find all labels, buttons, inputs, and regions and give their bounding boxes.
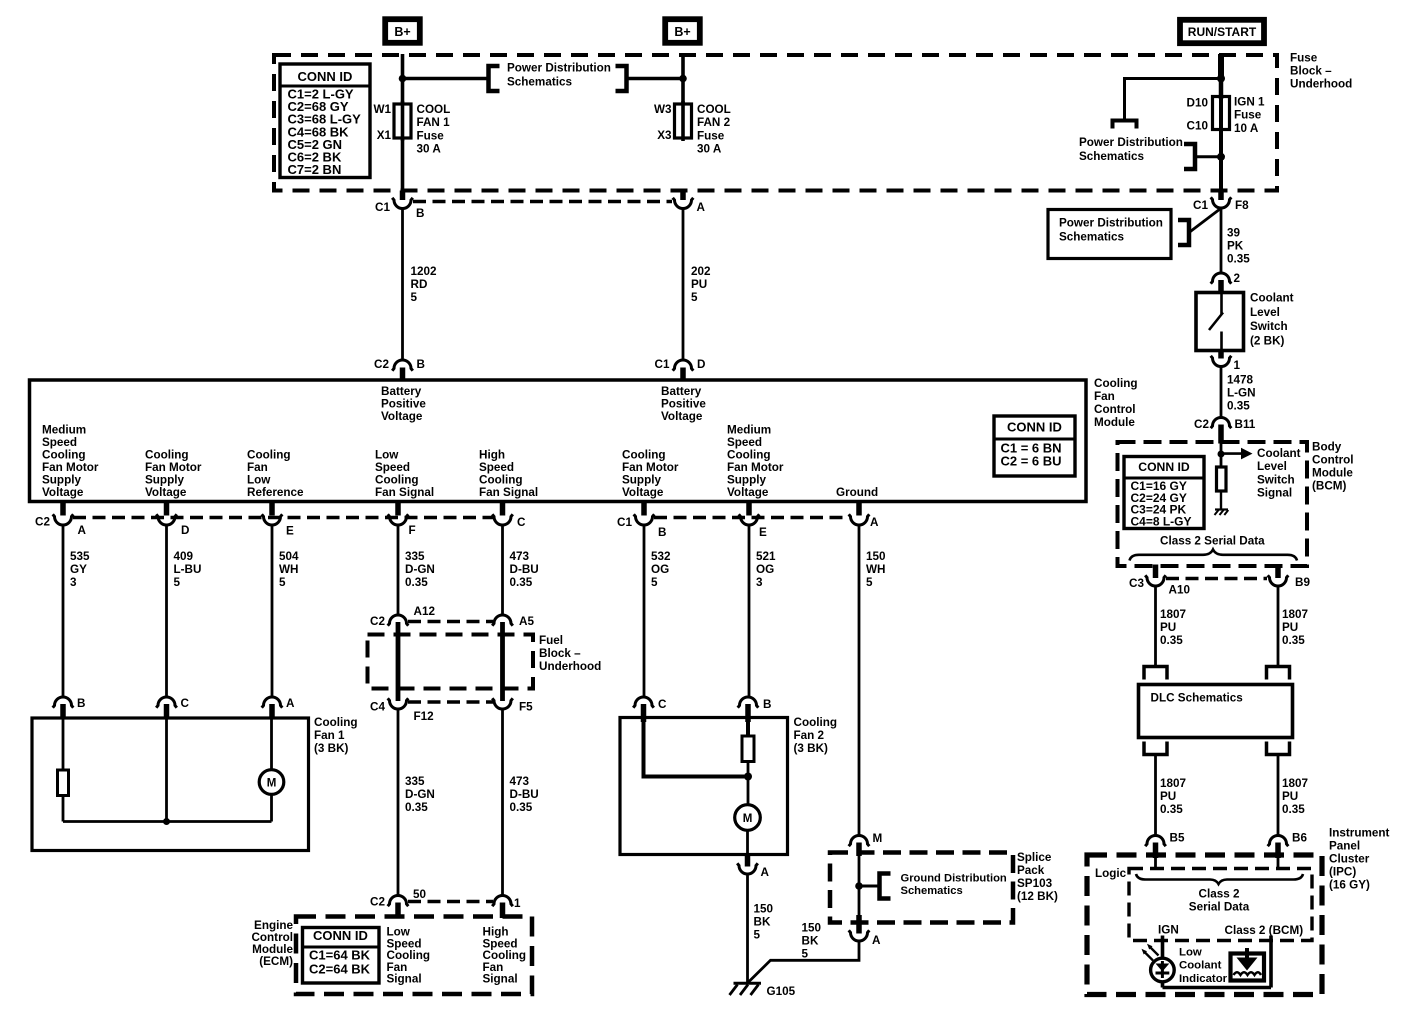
junction node power dist 2 [1217,153,1225,161]
svg-text:FAN 2: FAN 2 [697,116,731,129]
svg-text:B: B [416,207,424,220]
connector 1 coolant switch [1218,349,1224,359]
svg-text:535: 535 [70,550,90,563]
svg-text:(3 BK): (3 BK) [314,742,349,755]
svg-text:Positive: Positive [661,398,706,411]
svg-text:Supply: Supply [42,474,81,487]
svg-text:C2: C2 [370,896,385,909]
module pin A x63 [60,503,66,516]
connector C1-D module top [673,360,694,371]
svg-text:A5: A5 [519,615,534,628]
dashed connector line module right [654,516,849,520]
svg-text:Control: Control [1094,403,1136,416]
wire A10 to DLC [1154,586,1157,667]
coolant level switch box [1196,293,1244,351]
svg-text:X1: X1 [377,129,392,142]
svg-text:DLC Schematics: DLC Schematics [1151,692,1244,705]
connector fan2 A [745,854,751,867]
wire F8 to coolant switch [1220,208,1223,274]
wire junction1 to left bracket [403,77,488,81]
svg-text:B: B [77,697,85,710]
svg-text:5: 5 [754,929,761,942]
svg-text:409: 409 [174,550,194,563]
svg-text:Cooling: Cooling [794,716,838,729]
svg-text:B: B [658,526,666,539]
svg-text:Battery: Battery [381,385,422,398]
CONN ID table module [994,416,1075,476]
svg-text:RUN/START: RUN/START [1188,25,1257,39]
connector C1-B fuse block [392,198,413,209]
wire pin F to fuel block [397,525,400,617]
svg-text:Level: Level [1257,460,1287,473]
svg-text:3: 3 [70,576,77,589]
CONN ID table ECM [303,928,380,984]
svg-text:C2: C2 [374,358,389,371]
dashed connector line serial [1166,577,1267,581]
connector C2-B11 [1211,418,1232,429]
arrow coolant level switch signal [1221,452,1241,455]
svg-text:B6: B6 [1292,832,1307,845]
svg-text:Low: Low [375,449,399,462]
fan2 wire B to resistor [746,720,750,737]
fork to power distribution [1113,121,1137,129]
svg-text:Schematics: Schematics [507,76,572,89]
svg-text:M: M [873,832,883,845]
svg-text:Speed: Speed [727,436,762,449]
module pin C x502.5 [500,503,506,516]
svg-text:Cooling: Cooling [375,474,419,487]
junction node wire1/power-dist [399,75,407,83]
svg-text:WH: WH [279,563,298,576]
wire splice internal top [858,855,861,916]
cooling fan control module box [30,380,1087,502]
svg-text:WH: WH [866,563,885,576]
indicator icon wave [1234,972,1262,975]
fan2 wire C branch [644,720,749,777]
connector C2-B module top [392,360,413,371]
svg-text:Cooling: Cooling [479,474,523,487]
connector M splice [849,836,870,847]
svg-text:Block –: Block – [539,647,581,660]
svg-text:B: B [763,698,771,711]
connector B5 [1145,836,1166,847]
svg-text:Coolant: Coolant [1257,447,1301,460]
svg-text:B11: B11 [1235,418,1256,431]
svg-text:Voltage: Voltage [661,410,703,423]
bracket to Power Distribution Schematics left [489,66,500,91]
svg-text:Coolant: Coolant [1179,960,1222,972]
svg-text:Ground: Ground [836,486,878,499]
connector A fuse block wire2 [680,191,686,201]
fuse COOL FAN 1 [394,104,411,138]
svg-text:L-GN: L-GN [1227,387,1256,400]
svg-text:F12: F12 [414,710,435,723]
wire B9 to DLC [1277,586,1280,667]
svg-text:5: 5 [651,576,658,589]
resistor fan1 [58,770,69,796]
svg-text:B+: B+ [394,25,410,39]
svg-text:Low: Low [247,474,271,487]
svg-text:Schematics: Schematics [1059,231,1124,244]
fuel block dashed box [368,635,534,689]
svg-text:(IPC): (IPC) [1329,866,1356,879]
brace class 2 IPC [1136,874,1303,884]
svg-text:Fan: Fan [1094,390,1115,403]
svg-text:L-BU: L-BU [174,563,202,576]
wire switch to BCM [1220,367,1223,419]
fan2 wire motor to pin A [746,830,749,855]
svg-text:Control: Control [1312,454,1354,467]
svg-text:B+: B+ [674,25,690,39]
svg-text:B5: B5 [1170,832,1185,845]
connector C2-A12 [388,615,409,626]
svg-text:5: 5 [279,576,286,589]
svg-text:BK: BK [754,916,771,929]
fan1 wire C down [165,718,168,822]
svg-text:D10: D10 [1187,97,1209,110]
splice pack dashed box [830,853,1013,923]
svg-text:0.35: 0.35 [1160,634,1183,647]
svg-text:Schematics: Schematics [901,885,963,897]
svg-text:532: 532 [651,550,671,563]
svg-text:BK: BK [802,935,819,948]
svg-text:1478: 1478 [1227,374,1254,387]
svg-text:C2: C2 [370,615,385,628]
svg-text:D: D [697,358,705,371]
svg-text:0.35: 0.35 [405,801,428,814]
svg-text:C1: C1 [375,201,390,214]
svg-text:Reference: Reference [247,486,304,499]
svg-text:(2 BK): (2 BK) [1250,334,1285,347]
ignition feed RUN/START terminal [1180,20,1264,43]
svg-text:PU: PU [1282,621,1298,634]
svg-text:COOL: COOL [417,103,451,116]
svg-text:Indicator: Indicator [1179,973,1228,985]
svg-text:Fan Motor: Fan Motor [145,461,202,474]
svg-text:RD: RD [411,278,428,291]
junction node splice [855,882,863,890]
wire connector to module wire2 [682,209,685,362]
svg-text:Class 2 Serial Data: Class 2 Serial Data [1160,535,1265,548]
thick wire through fuel block left [396,622,401,701]
svg-text:B9: B9 [1295,576,1310,589]
connector A5 [492,615,513,626]
svg-text:150: 150 [802,922,822,935]
junction node wire2/power-dist [679,75,687,83]
svg-text:C2=64 BK: C2=64 BK [309,962,371,977]
box Power Distribution Schematics [1048,210,1171,259]
svg-text:Underhood: Underhood [1290,78,1352,91]
svg-text:504: 504 [279,550,299,563]
svg-text:Medium: Medium [727,424,771,437]
svg-text:39: 39 [1227,227,1241,240]
svg-text:0.35: 0.35 [1282,634,1305,647]
svg-text:0.35: 0.35 [1227,253,1250,266]
dashed connector line fuel top [408,620,493,624]
connector F5 [492,698,513,709]
svg-text:C2: C2 [35,516,50,529]
svg-text:CONN ID: CONN ID [298,69,353,84]
svg-text:Voltage: Voltage [727,486,769,499]
wire splice to bracket [859,885,878,888]
svg-text:C2 = 6 BU: C2 = 6 BU [1001,454,1062,469]
svg-text:A: A [78,524,87,537]
diagonal wire bracket to C1-F8 [1189,209,1220,233]
ground G105 symbol [734,982,762,985]
svg-text:C: C [181,697,190,710]
svg-text:Fuse: Fuse [697,129,725,142]
wire LED to bus [1161,981,1165,988]
bracket ground distribution [880,874,891,899]
fan1 wire B to resistor [62,718,65,771]
svg-text:Underhood: Underhood [539,660,601,673]
svg-text:OG: OG [651,563,669,576]
resistor fan2 [742,736,754,762]
wire resistor to ground BCM [1220,491,1222,509]
svg-text:F5: F5 [519,701,533,714]
battery feed B+ terminal 2 [665,19,700,43]
svg-text:5: 5 [411,291,418,304]
motor M fan1 [259,770,284,795]
wire fan2 A to ground [746,874,749,984]
svg-text:335: 335 [405,775,425,788]
svg-text:Signal: Signal [483,973,518,986]
module pin E x749 [746,503,752,516]
fan1 wire resistor to bus [62,796,65,822]
svg-text:Logic: Logic [1095,867,1127,880]
LED arrows [1145,952,1154,961]
svg-text:Instrument: Instrument [1329,827,1389,840]
svg-text:Supply: Supply [622,474,661,487]
svg-text:D: D [181,524,189,537]
connector 2 coolant switch [1211,273,1232,284]
svg-text:150: 150 [866,550,886,563]
svg-text:521: 521 [756,550,776,563]
svg-text:3: 3 [756,576,763,589]
svg-text:Fan 2: Fan 2 [794,729,825,742]
svg-text:Fuel: Fuel [539,634,563,647]
svg-text:PU: PU [691,278,707,291]
logic bottom bus [1163,986,1272,990]
svg-text:Serial Data: Serial Data [1189,901,1250,914]
svg-text:C: C [658,698,667,711]
wire B5 into logic [1154,857,1157,870]
svg-text:C2: C2 [1194,418,1209,431]
svg-text:C1: C1 [617,516,632,529]
svg-text:1202: 1202 [411,265,438,278]
fuse COOL FAN 2 [675,104,692,138]
wire class2 BCM to bus [1269,936,1273,988]
svg-text:Speed: Speed [42,436,77,449]
module pin A x859 [856,503,862,516]
svg-text:Voltage: Voltage [381,410,423,423]
wire pin B to fan2 C [643,525,646,698]
module pin F x398 [395,503,401,516]
fork DLC bottom right [1267,742,1290,755]
svg-text:Fan Signal: Fan Signal [375,486,434,499]
svg-text:Signal: Signal [1257,487,1292,500]
svg-text:D-GN: D-GN [405,563,435,576]
svg-text:CONN ID: CONN ID [1138,460,1190,474]
svg-text:M: M [743,813,753,825]
svg-text:5: 5 [174,576,181,589]
svg-text:A12: A12 [414,605,436,618]
svg-text:(BCM): (BCM) [1312,480,1347,493]
wire pin D to fan1 C [165,525,168,698]
wire F12 to ECM [397,709,400,897]
svg-text:Cooling: Cooling [314,716,358,729]
fork DLC top left [1144,667,1167,680]
switch contact top [1220,294,1223,314]
wire DLC to B5 [1154,755,1157,837]
dashed connector line row1 [413,200,672,204]
svg-text:473: 473 [510,775,530,788]
svg-text:Speed: Speed [479,461,514,474]
svg-text:A: A [286,697,295,710]
svg-text:PU: PU [1160,790,1176,803]
svg-text:C3: C3 [1129,577,1144,590]
svg-text:50: 50 [413,888,427,901]
svg-text:C1=64 BK: C1=64 BK [309,948,371,963]
fan1 wire motor to bus [270,795,273,822]
fuse block underhood dashed box [274,55,1277,191]
svg-text:Fan: Fan [247,461,268,474]
svg-text:Power Distribution: Power Distribution [1059,217,1163,230]
wire right bracket to wire2 [628,77,683,81]
wire pin C to fuel block [501,525,504,617]
svg-text:PU: PU [1282,790,1298,803]
wire to bracket ign [1196,155,1221,158]
svg-text:Cooling: Cooling [1094,377,1138,390]
svg-text:Block –: Block – [1290,65,1332,78]
svg-text:Body: Body [1312,441,1342,454]
svg-text:Module: Module [1094,416,1135,429]
svg-text:Supply: Supply [727,474,766,487]
wire RUN/START to junction [1218,54,1224,79]
svg-text:Level: Level [1250,306,1280,319]
connector C1-F8 [1218,191,1224,201]
wire connector to module wire1 [401,209,404,362]
svg-text:0.35: 0.35 [1282,803,1305,816]
svg-text:G105: G105 [767,985,796,998]
connector B9 [1275,565,1281,579]
bracket right of box [1178,220,1189,245]
wire DLC to B6 [1277,755,1280,837]
svg-text:Fuse: Fuse [1234,109,1262,122]
svg-text:IGN: IGN [1158,924,1179,937]
svg-text:A: A [870,516,879,529]
wire IGN to LED [1161,936,1165,960]
svg-text:C1: C1 [1193,199,1208,212]
low coolant indicator box [1231,954,1265,981]
LED indicator circle [1151,958,1175,982]
svg-text:0.35: 0.35 [510,576,533,589]
thick wire through fuel block right [500,622,505,701]
fan1 wire A to motor [270,718,273,771]
svg-text:A: A [872,934,881,947]
svg-text:SP103: SP103 [1017,877,1053,890]
svg-text:Module: Module [1312,467,1353,480]
svg-text:Schematics: Schematics [1079,150,1144,163]
fork DLC top right [1267,667,1290,680]
svg-text:GY: GY [70,563,87,576]
connector C3-A10 [1153,565,1159,579]
junction node ign [1217,75,1225,83]
svg-text:A10: A10 [1169,584,1191,597]
svg-text:Fan Motor: Fan Motor [727,461,784,474]
connector B6 [1268,836,1289,847]
svg-text:FAN 1: FAN 1 [417,116,451,129]
fan2 wire resistor to junction [747,762,750,777]
svg-text:C: C [517,516,526,529]
svg-text:A: A [761,866,770,879]
svg-text:D-GN: D-GN [405,788,435,801]
wire branch to fork [1125,79,1222,120]
CONN ID table fuse block [280,64,370,178]
svg-text:E: E [759,526,767,539]
svg-text:Battery: Battery [661,385,702,398]
svg-text:1807: 1807 [1160,608,1186,621]
svg-text:Voltage: Voltage [42,486,84,499]
wire IGN fuse to connector C1-F8 [1219,130,1223,191]
module pin B x644 [641,503,647,516]
svg-text:Switch: Switch [1250,320,1288,333]
connector fan1 B [53,697,74,708]
svg-text:IGN 1: IGN 1 [1234,96,1265,109]
bracket power distribution schematics 2 [1184,144,1195,169]
svg-text:X3: X3 [657,129,672,142]
switch blade [1209,313,1223,331]
connector 1 ECM [492,896,513,907]
svg-text:C7=2 BN: C7=2 BN [288,162,342,177]
connector C2-50 ECM [388,896,409,907]
svg-text:M: M [267,778,277,790]
svg-text:Power Distribution: Power Distribution [507,62,611,75]
svg-text:473: 473 [510,550,530,563]
svg-text:W3: W3 [654,103,672,116]
cooling fan 1 box [32,718,309,851]
svg-text:Class 2: Class 2 [1199,888,1240,901]
svg-text:C4=8 L-GY: C4=8 L-GY [1131,514,1192,528]
motor M fan2 [735,805,761,831]
svg-text:Fan Signal: Fan Signal [479,486,538,499]
svg-text:Cooling: Cooling [145,449,189,462]
wire splice A to ground [749,941,860,982]
svg-text:Fan Motor: Fan Motor [42,461,99,474]
svg-text:Cooling: Cooling [247,449,291,462]
wire pin A to fan1 B [62,525,65,698]
cooling fan 2 box [620,718,788,855]
dashed connector line ECM [408,900,493,904]
svg-text:1807: 1807 [1160,777,1186,790]
svg-text:5: 5 [866,576,873,589]
svg-text:Cooling: Cooling [42,449,86,462]
wire pin E to fan1 A [271,525,274,698]
svg-text:Coolant: Coolant [1250,292,1294,305]
svg-text:Low: Low [1179,947,1202,959]
svg-text:W1: W1 [373,103,391,116]
svg-text:150: 150 [754,903,774,916]
svg-text:1807: 1807 [1282,608,1308,621]
svg-text:Fan Motor: Fan Motor [622,461,679,474]
wire junction to IGN fuse [1219,79,1224,100]
wire F5 to ECM [501,709,504,897]
wire B6 into logic [1277,857,1280,870]
junction node fan2 [744,773,752,781]
connector fan1 C [156,697,177,708]
svg-text:CONN ID: CONN ID [1007,420,1062,435]
fuse IGN 1 [1213,97,1230,130]
